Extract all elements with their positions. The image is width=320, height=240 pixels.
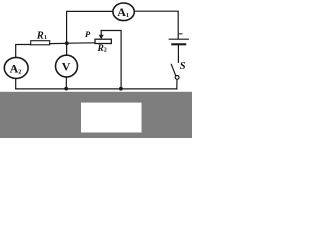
wire V riser bottom xyxy=(65,77,67,89)
ammeter A2 xyxy=(4,57,28,78)
node junction slider riser xyxy=(119,87,123,91)
rheostat slider arrow P xyxy=(100,31,102,36)
battery short plate xyxy=(172,43,185,45)
wire A1 branch riser and top xyxy=(67,11,113,43)
battery long plate xyxy=(169,38,188,40)
wire V riser top xyxy=(66,43,68,55)
wire A2 bottom riser xyxy=(15,79,17,89)
wire switch to bottom bus xyxy=(176,79,178,89)
node junction top xyxy=(65,41,69,45)
ammeter A1 xyxy=(113,3,134,21)
voltmeter V xyxy=(56,55,78,77)
wire A1 to battery corner xyxy=(134,11,178,38)
node junction bottom V xyxy=(64,87,68,91)
resistor R1 xyxy=(31,41,50,45)
switch S contact xyxy=(175,76,179,80)
wire A2 top riser to R1 xyxy=(16,45,31,58)
battery plus tick xyxy=(179,33,182,35)
switch S blade xyxy=(171,64,176,76)
wire battery to switch xyxy=(177,45,179,62)
svg-text:V: V xyxy=(62,60,71,74)
wire slider top and riser xyxy=(101,31,121,89)
wire R1 to top junction xyxy=(50,42,67,44)
wire junction to R2 xyxy=(67,42,95,44)
svg-text:P: P xyxy=(85,29,91,39)
rheostat R2 xyxy=(95,39,111,43)
svg-text:S: S xyxy=(180,61,186,72)
wire bottom bus xyxy=(16,88,177,90)
